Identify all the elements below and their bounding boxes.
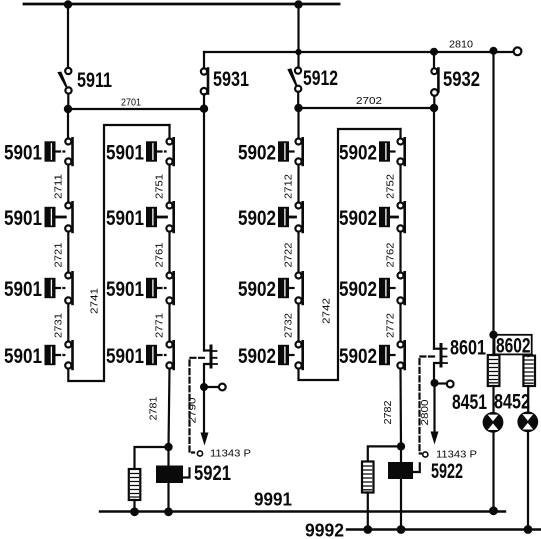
node coil 5921 / 9991 (164, 507, 173, 516)
wire between row1 and row2 (67, 165, 69, 203)
svg-text:2722: 2722 (283, 242, 295, 267)
node junction second bus / 5912 drop (295, 49, 301, 55)
wire col2 bottom to relay 5921 junction (169, 369, 170, 447)
svg-text:5901: 5901 (106, 345, 144, 368)
svg-text:5901: 5901 (4, 278, 42, 301)
wire lamp 8451 to bus 9991 (492, 433, 494, 511)
svg-text:2702: 2702 (356, 96, 383, 107)
hook to label 5921 (183, 468, 190, 477)
wire lamp feeder from second bus (492, 51, 494, 335)
node junction test branch left (200, 383, 208, 391)
wire to terminal circle right (435, 382, 447, 384)
svg-text:2711: 2711 (53, 174, 65, 199)
wire drop to switch 5911 (67, 4, 69, 68)
terminal circle right end (514, 47, 522, 55)
contact 5901 row1 (146, 138, 174, 165)
svg-text:5912: 5912 (303, 67, 338, 90)
wire bus 2701 (68, 108, 204, 110)
svg-text:2790: 2790 (187, 397, 199, 423)
svg-text:5901: 5901 (106, 207, 144, 230)
svg-text:5902: 5902 (238, 345, 276, 368)
node junction feeder / 8602 branch (489, 331, 497, 339)
wire between row2 and row3 (67, 232, 69, 273)
svg-text:5902: 5902 (339, 207, 377, 230)
contact 5902 row3 (278, 272, 303, 304)
wire down to arrow right (433, 383, 435, 432)
wire top supply bus (24, 3, 339, 6)
resistor 8602 (523, 356, 535, 386)
svg-text:9991: 9991 (254, 490, 292, 510)
wire 5931 stub from second bus (203, 52, 205, 68)
wire 2741 loop col1 bottom to col2 top (68, 125, 169, 381)
relay coil 5921 (156, 466, 183, 484)
node junction above coil 5922 (397, 442, 405, 450)
contact 5931 (201, 68, 208, 108)
contact 5902 row2 (278, 202, 303, 232)
contact 5902 row3 (379, 272, 405, 304)
wire col1 top (67, 109, 69, 138)
wire second bus to terminal (204, 51, 514, 53)
wire resistor 8602 to lamp 8452 (527, 386, 529, 412)
wire down to arrow left (203, 387, 205, 433)
box around label 8602 (495, 335, 532, 355)
wire between row2 and row3 (399, 232, 401, 273)
contact 5902 row2 (379, 202, 405, 232)
svg-text:5902: 5902 (339, 278, 377, 301)
svg-text:2742: 2742 (321, 298, 333, 324)
node junction 5932 / 2702 (430, 104, 438, 112)
wire branch to resistor left of 5922 (368, 446, 401, 461)
svg-text:2772: 2772 (385, 313, 397, 338)
svg-text:8601: 8601 (450, 337, 486, 360)
svg-text:9992: 9992 (305, 521, 344, 539)
wire bus 9992 (347, 528, 541, 530)
arrow down left (201, 433, 209, 446)
contact 5901 row4 (45, 341, 73, 369)
svg-text:2751: 2751 (154, 174, 166, 199)
wire resistor to bus 9991 (133, 500, 135, 512)
contact comb (test link) right (434, 345, 447, 384)
wire bus 9991 (100, 510, 505, 512)
svg-text:8602: 8602 (496, 335, 531, 358)
node junction top bus / 5912 drop (294, 0, 302, 8)
contact 5902 row1 (379, 138, 405, 165)
svg-text:2800: 2800 (419, 399, 431, 425)
svg-text:5901: 5901 (106, 142, 144, 165)
svg-text:5901: 5901 (4, 142, 42, 165)
svg-text:5901: 5901 (4, 207, 42, 230)
relay coil 5922 (388, 462, 413, 479)
wire bus 2702 (299, 107, 435, 109)
svg-text:2752: 2752 (385, 174, 397, 199)
contact 5901 row3 (45, 272, 73, 304)
resistor (parallel to coil 5922) (362, 462, 374, 493)
svg-text:2781: 2781 (148, 396, 160, 420)
contact 5932 (431, 52, 438, 108)
node junction test branch right (431, 379, 439, 387)
node resistor / 9991 (130, 507, 139, 516)
svg-text:2771: 2771 (154, 313, 166, 338)
contact 5901 row2 (146, 202, 174, 232)
wire between row3 and row4 (297, 304, 299, 342)
wire branch to resistor left of 5921 (135, 447, 169, 469)
svg-text:5902: 5902 (238, 278, 276, 301)
svg-text:2761: 2761 (154, 242, 166, 267)
wire through coil 5922 to bus 9992 (400, 446, 402, 529)
svg-text:5921: 5921 (194, 462, 231, 485)
linkage dashed 5922 (420, 357, 435, 454)
wire between row1 and row2 (168, 165, 170, 203)
svg-text:8452: 8452 (494, 391, 530, 414)
wire col4 top stub (399, 129, 401, 138)
wire through coil 5921 to bus 9991 (167, 447, 169, 512)
arrow down right (431, 432, 439, 445)
switch 5912 (287, 68, 301, 109)
resistor (parallel to coil 5921) (129, 469, 141, 500)
node junction 5931 / 2701 (200, 105, 208, 113)
svg-text:5902: 5902 (238, 142, 276, 165)
terminal circle left (219, 384, 226, 391)
node coil 5922 / 9992 (397, 525, 406, 534)
svg-text:5902: 5902 (339, 345, 377, 368)
wire 2800 from 5932 down to comb contact (433, 108, 435, 349)
linkage dashed 5921 (190, 358, 205, 453)
wire resistor 8601 to lamp 8451 (492, 386, 494, 412)
contact 5901 row3 (146, 272, 174, 304)
svg-text:2810: 2810 (449, 40, 473, 51)
node junction 5911 / 2701 (64, 105, 72, 113)
svg-text:5931: 5931 (213, 68, 249, 91)
wire junction to resistor 8601 (492, 335, 494, 355)
node junction col3 / 2702 (294, 104, 302, 112)
svg-text:2732: 2732 (283, 313, 295, 338)
node junction second bus / 5932 (430, 48, 438, 56)
resistor 8601 (488, 355, 500, 386)
wire 2742 loop col3 bottom to col4 top (299, 129, 401, 380)
wire between row2 and row3 (168, 232, 170, 273)
wire col4 bottom to relay 5922 junction (399, 369, 402, 447)
svg-text:2762: 2762 (385, 242, 397, 267)
node junction second bus / lamp feeder (490, 47, 498, 55)
wire between row1 and row2 (297, 165, 299, 203)
svg-text:2712: 2712 (283, 174, 295, 199)
node lamp 8451 / 9991 (489, 506, 498, 515)
hook to label 5922 (413, 463, 420, 472)
wire lamp 8452 to bus 9992 (527, 432, 529, 529)
contact 5901 row1 (45, 138, 73, 165)
terminal small circle linkage right (423, 452, 428, 457)
svg-text:5911: 5911 (77, 69, 112, 92)
svg-text:2782: 2782 (382, 400, 394, 424)
wire between row3 and row4 (67, 304, 69, 342)
svg-text:8451: 8451 (452, 391, 487, 414)
wire 2790 from 5931 down to comb contact (203, 109, 205, 351)
node resistor / 9992 (363, 525, 372, 534)
wire between row2 and row3 (297, 232, 299, 273)
switch 5911 (57, 68, 71, 109)
svg-text:5902: 5902 (238, 207, 276, 230)
wire col2 top stub (168, 125, 170, 138)
contact 5902 row1 (278, 138, 303, 165)
svg-text:5901: 5901 (4, 345, 42, 368)
lamp 8451 (483, 412, 504, 433)
wire between row3 and row4 (399, 304, 401, 342)
node junction above coil 5921 (164, 443, 172, 451)
svg-text:2731: 2731 (53, 313, 65, 338)
svg-text:5902: 5902 (339, 142, 377, 165)
svg-text:11343 P: 11343 P (210, 449, 251, 460)
svg-text:2701: 2701 (121, 98, 141, 109)
contact comb (test link) left (204, 346, 217, 387)
contact 5901 row4 (146, 341, 174, 369)
wire drop to switch 5912 (297, 4, 299, 68)
svg-text:5932: 5932 (443, 68, 480, 91)
svg-text:5922: 5922 (431, 460, 463, 483)
wire 8602 branch down to resistor 8602 (528, 354, 532, 356)
wire between row1 and row2 (399, 165, 401, 203)
node junction top bus / 5911 drop (64, 0, 72, 8)
wire between row3 and row4 (168, 304, 170, 342)
svg-text:2741: 2741 (89, 288, 101, 314)
lamp 8452 (517, 411, 538, 432)
svg-text:5901: 5901 (106, 278, 144, 301)
terminal circle right (447, 381, 454, 388)
contact 5902 row4 (278, 341, 303, 369)
contact 5901 row2 (45, 202, 73, 232)
node lamp 8452 / 9992 (524, 525, 533, 534)
contact 5902 row4 (379, 341, 405, 369)
wire to terminal circle left (204, 386, 219, 388)
svg-text:11343 P: 11343 P (436, 450, 477, 461)
wire col3 top (297, 108, 299, 138)
wire resistor to bus 9992 (367, 493, 369, 530)
svg-text:2721: 2721 (53, 242, 65, 267)
terminal small circle linkage left (197, 451, 202, 456)
